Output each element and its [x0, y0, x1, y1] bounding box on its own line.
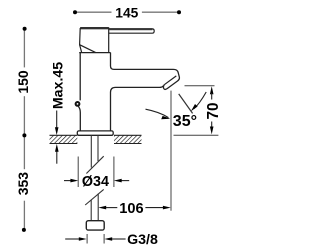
- spout tip vertical reference line: [170, 91, 172, 211]
- dim Ø34 extension lines: [78, 157, 114, 188]
- dim 106 left arrow: [98, 206, 117, 210]
- dim 145 end dots: [73, 10, 77, 14]
- faucet handle grip outline: [80, 28, 109, 53]
- dim G3/8 right arrow: [104, 237, 125, 241]
- dim Ø34 left arrow: [64, 179, 78, 183]
- dim 145 top dimension line: [75, 11, 179, 13]
- angle arc right with arrowhead: [191, 92, 206, 111]
- svg-text:70: 70: [205, 102, 222, 119]
- counter hatched band left: [50, 135, 78, 143]
- spout upper outline with aerator outer edge: [111, 53, 180, 90]
- dim Ø34 right arrow: [114, 179, 129, 183]
- dim 70 vertical line with arrows: [210, 86, 214, 134]
- aerator inner edge: [164, 76, 176, 85]
- dim Max.45 upper arrow: [55, 111, 59, 136]
- dim 150/353 left dimension line: [23, 29, 25, 230]
- dim 70 top extension line: [185, 85, 215, 87]
- faucet body left edge lower: [78, 106, 80, 131]
- supply hose upper verticals: [91, 135, 98, 167]
- hose lower break diagonal: [85, 189, 104, 205]
- counter hatched band right: [114, 135, 142, 143]
- svg-text:150: 150: [15, 70, 31, 94]
- hose end connector: [86, 221, 104, 230]
- faucet body left edge upper: [79, 53, 81, 101]
- spout bottom edge and body right edge: [111, 86, 164, 131]
- angle arc left with arrowhead: [146, 109, 171, 119]
- dim Max.45 lower arrow: [55, 144, 59, 164]
- faucet handle grip top thick edge: [80, 27, 109, 29]
- faucet base flange: [77, 131, 113, 135]
- spray direction line 35deg: [179, 94, 193, 114]
- supply hose lower verticals: [91, 194, 98, 221]
- svg-text:35°: 35°: [173, 113, 197, 130]
- svg-text:Ø34: Ø34: [82, 174, 109, 190]
- svg-text:106: 106: [119, 201, 143, 217]
- dim dots: [23, 27, 27, 31]
- faucet handle lever arm: [109, 29, 155, 33]
- dim 106 right arrow: [145, 206, 170, 210]
- svg-text:353: 353: [15, 172, 31, 196]
- hose upper break diagonal: [86, 156, 103, 173]
- dim G3/8 left arrow: [65, 237, 87, 241]
- svg-text:145: 145: [115, 5, 138, 20]
- svg-text:Max.45: Max.45: [50, 62, 66, 109]
- dim 70 bottom extension line: [174, 134, 219, 136]
- body side knob: [76, 102, 80, 106]
- faucet body top edge: [79, 52, 110, 54]
- svg-text:G3/8: G3/8: [127, 232, 158, 248]
- dim G3/8 extension lines: [87, 234, 104, 244]
